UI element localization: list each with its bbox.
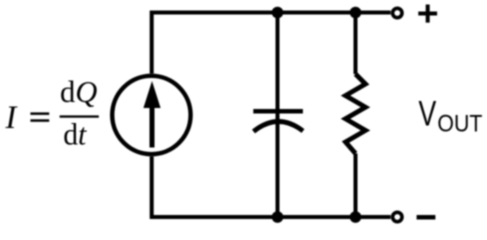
svg-text:OUT: OUT [437,111,482,138]
svg-text:dt: dt [63,117,87,152]
svg-text:V: V [419,94,437,134]
svg-text:dQ: dQ [60,74,97,109]
